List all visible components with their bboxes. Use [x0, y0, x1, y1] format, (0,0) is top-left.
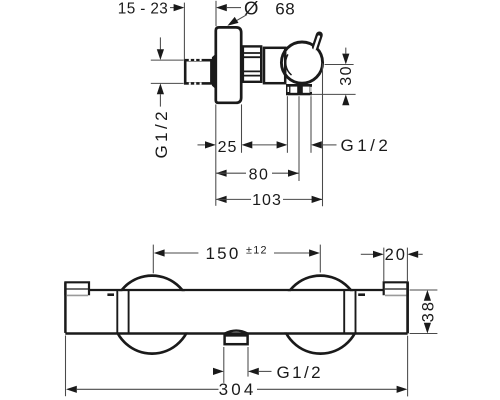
wall plane extension line: [183, 3, 185, 60]
dim 20 left extension: [383, 248, 385, 282]
svg-text:80: 80: [249, 167, 270, 184]
dim 25 arrow right: [205, 141, 216, 148]
right grip tab: [384, 282, 408, 295]
right union escutcheon circle: [282, 276, 360, 354]
svg-text:150: 150: [206, 244, 241, 263]
bar top edge: [89, 289, 384, 291]
dim 150 line right: [274, 252, 309, 254]
dim 38 top extension: [410, 289, 438, 291]
extension line outlet right: [310, 96, 312, 153]
dim 150 right extension: [319, 245, 321, 273]
dim 150 line left: [165, 252, 199, 254]
svg-text:G1/2: G1/2: [152, 108, 171, 158]
bar body fill: [64, 291, 407, 332]
dim 38 arrow down: [424, 323, 431, 334]
dim 80 arrow right: [288, 170, 299, 177]
extension line outlet left: [286, 96, 288, 153]
pipe height dim upper tail: [159, 37, 161, 49]
dim 25 arrow left: [242, 141, 253, 148]
extension line handle right edge: [322, 63, 324, 206]
svg-text:68: 68: [275, 0, 295, 18]
svg-text:G1/2: G1/2: [277, 363, 323, 382]
dim 20 arrow left: [407, 251, 418, 258]
dim 304 arrow left: [66, 386, 77, 393]
dim 103 line right: [283, 198, 322, 200]
pipe thread notches: [189, 59, 202, 85]
right index dash: [358, 293, 365, 296]
pipe bottom extension: [151, 82, 184, 84]
dim 103 line left: [216, 198, 251, 200]
dim 30 arrow up: [342, 94, 349, 105]
outlet G1/2 arrow right: [213, 368, 224, 375]
dim 150 left extension: [152, 245, 154, 274]
outlet G1/2 arrow right: [277, 141, 288, 148]
svg-text:±12: ±12: [246, 244, 268, 256]
outlet nut (bottom of valve): [286, 84, 312, 95]
pipe height lower tail: [159, 94, 161, 106]
Ø68 leader line: [231, 15, 247, 24]
lever handle stub: [315, 35, 319, 47]
lever stub interior: [314, 37, 319, 51]
svg-text:30: 30: [338, 65, 355, 86]
left index dash: [107, 293, 114, 296]
dim 38 arrow up: [424, 290, 431, 301]
escutcheon rim: [212, 53, 217, 89]
dim line between 25 and outlet: [252, 144, 276, 146]
dim 103 arrow left: [216, 196, 227, 203]
pipe height arrow up: [157, 83, 164, 94]
pipe height arrow down: [157, 49, 164, 60]
left grip tab: [65, 282, 89, 295]
dim 20 tail right: [418, 253, 423, 255]
dim 103 arrow right: [312, 196, 323, 203]
dim 304 left extension: [65, 336, 67, 397]
handle knob circle: [281, 42, 322, 83]
svg-text:G1/2: G1/2: [341, 136, 392, 155]
svg-text:Ø: Ø: [244, 0, 258, 19]
outlet right extension: [247, 347, 249, 377]
dim 304 line right: [257, 388, 397, 390]
dim 15-23 arrow left: [216, 4, 227, 11]
knob inner rim arc: [286, 54, 292, 75]
dim 304 arrow right: [397, 386, 408, 393]
dim 80 arrow left: [216, 170, 227, 177]
union nut: [243, 46, 261, 81]
hose outlet dome (front): [225, 331, 248, 334]
Ø68 leader arrowhead: [227, 17, 238, 26]
bar bottom edge: [65, 332, 407, 334]
dim 20 right extension: [406, 248, 408, 282]
dim 304 right extension: [407, 336, 409, 397]
svg-text:103: 103: [252, 192, 282, 209]
valve body: [264, 48, 285, 83]
extension line escutcheon front: [241, 104, 243, 152]
svg-text:25: 25: [218, 139, 238, 156]
dim 15-23 arrow right: [174, 4, 185, 11]
outlet G1/2 arrow left: [311, 141, 322, 148]
svg-text:20: 20: [385, 246, 407, 264]
right cap face: [406, 282, 409, 333]
dim 80 line left: [216, 172, 246, 174]
dim 20 tail left: [361, 253, 373, 255]
extension line escutcheon face: [215, 104, 217, 205]
hose outlet body (front): [225, 335, 248, 344]
dim 15-23 line left: [170, 7, 174, 9]
dim 15-23 tail: [227, 7, 241, 9]
escutcheon face extension line: [215, 1, 217, 26]
dim 30 upper tail: [345, 48, 347, 54]
dim 80 line right: [272, 172, 299, 174]
supply pipe G1/2: [185, 60, 211, 83]
extension line outlet center: [298, 96, 300, 181]
outlet G1/2 arrow left: [248, 368, 259, 375]
dim 30 arrow down: [342, 54, 349, 65]
left collar ring: [116, 291, 118, 333]
dim 30 lower extension: [311, 93, 356, 95]
left cap face: [64, 282, 67, 333]
dim 30 upper extension: [325, 64, 354, 66]
pipe top extension: [151, 59, 184, 61]
escutcheon Ø68 disc: [216, 27, 241, 102]
dim 25 tail left: [198, 144, 205, 146]
dim 150 arrow left: [154, 249, 165, 256]
right collar ring: [343, 291, 345, 333]
outlet G1/2 tail: [259, 370, 272, 372]
svg-text:304: 304: [219, 380, 257, 399]
dim 20 arrow right: [373, 251, 384, 258]
svg-text:38: 38: [420, 300, 438, 322]
outlet G1/2 tail: [322, 144, 337, 146]
outlet left extension: [223, 347, 225, 383]
dim 150 arrow right: [309, 249, 320, 256]
left union escutcheon circle: [113, 276, 191, 354]
svg-text:15 - 23: 15 - 23: [118, 0, 168, 17]
dim 304 line left: [77, 388, 219, 390]
dim 38 bottom extension: [410, 333, 438, 335]
